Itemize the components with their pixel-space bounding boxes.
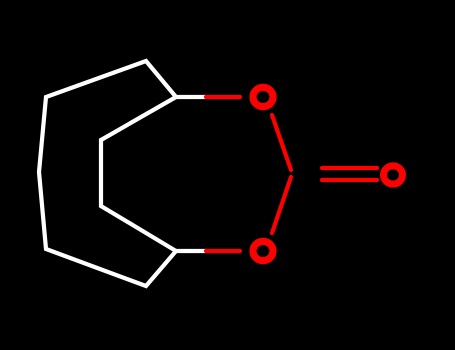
- wire C2=O carbonyl double bond upper line: [322, 166, 377, 170]
- wire red half-bond C7 to O1: [206, 95, 240, 99]
- node O3 ring oxygen atom label: [253, 241, 273, 260]
- wire outer carbocycle ring path C7-C8-C9-C10-C11-C12-C4 (white bonds): [39, 61, 206, 286]
- wire bond O1 to C2: [272, 115, 291, 170]
- node O carbonyl oxygen atom label: [384, 166, 403, 184]
- wire C2=O carbonyl double bond lower line: [322, 178, 377, 182]
- wire bond O3 to C2: [272, 177, 291, 233]
- wire red half-bond C4 to O3: [206, 249, 240, 253]
- wire inner bridge bonds C7-C6, C6-C5, C5-C4 (white): [101, 97, 176, 251]
- node O1 ring oxygen atom label: [253, 87, 273, 106]
